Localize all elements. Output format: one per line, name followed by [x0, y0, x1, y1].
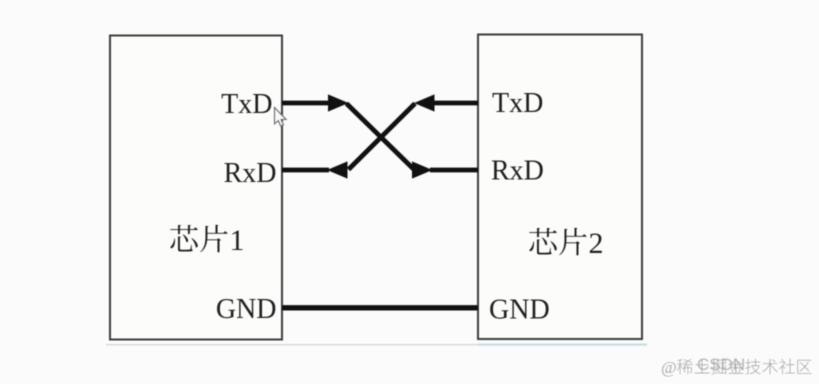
svg-text:@: @ — [661, 358, 677, 377]
arrowhead TxD2 pointing left — [414, 94, 435, 111]
arrowhead into RxD1 pointing left — [327, 161, 348, 178]
wire diagonal TxD2 to RxD1 — [349, 104, 416, 170]
svg-text:1: 1 — [230, 224, 245, 257]
wire RxD(芯片2) horizontal segment — [430, 168, 478, 173]
svg-text:2: 2 — [589, 227, 604, 260]
svg-text:CSDN: CSDN — [697, 355, 745, 374]
svg-text:TxD: TxD — [221, 89, 272, 120]
svg-text:RxD: RxD — [224, 158, 277, 189]
mouse cursor — [275, 108, 287, 127]
wire GND(芯片1) to GND(芯片2) — [282, 305, 478, 310]
svg-text:TxD: TxD — [492, 88, 543, 119]
wire RxD(芯片1) horizontal segment — [282, 168, 329, 173]
chip name label 芯片2 — [529, 227, 603, 260]
svg-text:GND: GND — [489, 295, 550, 326]
decorative baseline rule (left gray part) — [106, 344, 478, 346]
chip 芯片2 (U2) box — [478, 35, 642, 340]
watermark @稀土掘金技术社区 with CSDN overlay — [661, 355, 812, 377]
chip name label 芯片1 — [170, 224, 244, 257]
chip 芯片1 (U1) box — [110, 36, 282, 340]
arrowhead into RxD2 pointing right — [412, 161, 433, 178]
decorative baseline rule (bluish part under 芯片2) — [478, 344, 647, 346]
arrowhead TxD1 pointing right — [328, 94, 349, 111]
wire diagonal TxD1 to RxD2 — [347, 104, 415, 170]
svg-text:GND: GND — [216, 294, 277, 325]
wire TxD(芯片2) horizontal segment — [434, 101, 478, 106]
wire TxD(芯片1) horizontal segment — [282, 101, 334, 106]
svg-text:RxD: RxD — [491, 156, 544, 187]
